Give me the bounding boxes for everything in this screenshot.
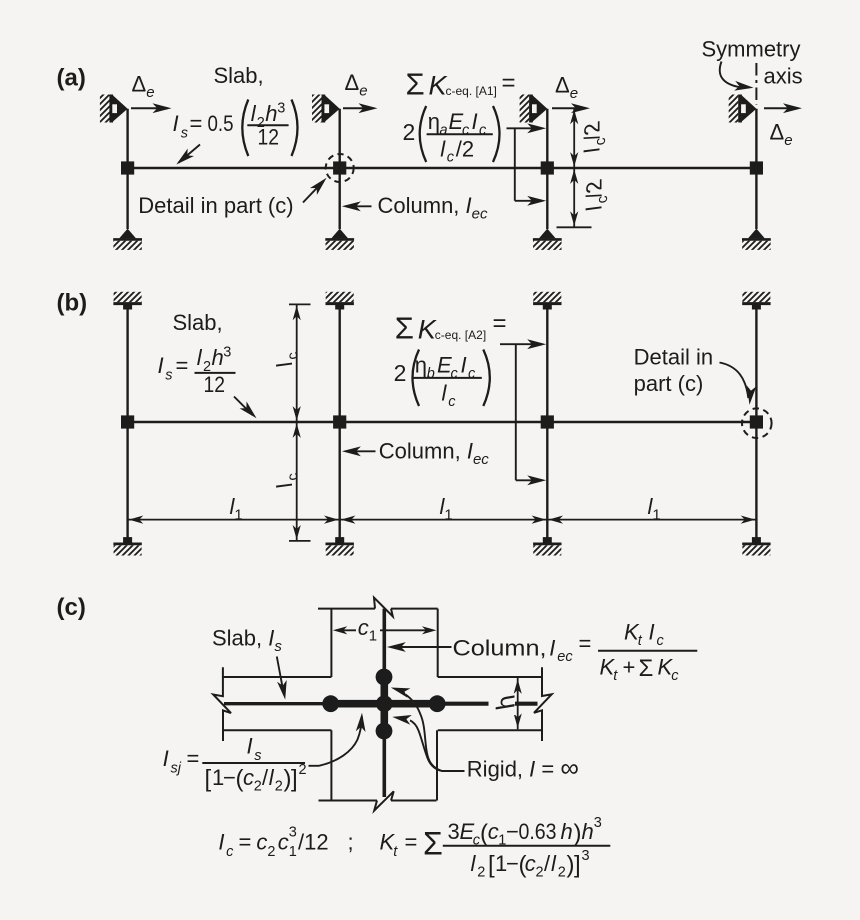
svg-text:[: [ — [488, 852, 495, 879]
svg-text:Detail in: Detail in — [634, 345, 713, 370]
svg-text:]: ] — [574, 852, 581, 879]
formula Isj = Is / [1-(c2/l2)]^2 — [163, 734, 307, 795]
rigid column segment through joint (c) — [380, 677, 388, 731]
cut line with break at slab right end (c) — [534, 667, 552, 741]
lateral load arrow at top of column A2 — [343, 103, 378, 113]
dimension line lc/2 + lc/2 beside column A3 — [557, 108, 592, 227]
pin support at bottom of column A2 — [325, 229, 354, 250]
column B3 of frame (b) — [546, 309, 548, 538]
column outline top-left edge (c) — [330, 609, 332, 677]
slab outline left arm bottom edge (c) — [223, 729, 332, 731]
column A1 of frame (a) — [126, 109, 128, 229]
fixed support at bottom of column B4 — [742, 537, 770, 555]
svg-text:=: = — [239, 830, 252, 855]
svg-text:3: 3 — [594, 815, 602, 831]
joint node square B1 — [121, 415, 134, 428]
pin support at bottom of column A4 — [742, 229, 771, 250]
leader curve from Rigid label to lower rigid segment — [392, 712, 442, 771]
hinge dot left (c) — [322, 695, 339, 712]
svg-text:I: I — [247, 734, 253, 759]
svg-text:I: I — [472, 109, 478, 134]
equivalent column stiffness formula 2(eta-b Ec Ic / lc) — [394, 350, 490, 411]
lateral load arrow at top of column A3 — [552, 103, 590, 113]
svg-text:Σ: Σ — [423, 826, 443, 862]
fixed support at top of column B2 — [326, 292, 354, 310]
svg-text:sj: sj — [171, 761, 182, 777]
svg-text:Column,: Column, — [453, 636, 547, 661]
arrow from Column label to column A2 — [342, 201, 372, 211]
svg-text:Slab,: Slab, — [214, 63, 264, 88]
curved leader arrow to detail circle at node B4 — [720, 363, 757, 406]
joint node square B2 — [333, 415, 346, 428]
svg-text:[: [ — [205, 766, 212, 793]
svg-text:part (c): part (c) — [634, 371, 704, 396]
svg-text:Rigid, I = ∞: Rigid, I = ∞ — [467, 753, 579, 783]
svg-text:h: h — [212, 345, 224, 370]
svg-text:ec: ec — [557, 649, 573, 665]
lateral load arrow at top of column A4 — [764, 103, 802, 113]
svg-text:=: = — [187, 746, 200, 771]
slab beam of frame (b) — [128, 421, 757, 423]
svg-text:=: = — [405, 830, 418, 855]
pin support at bottom of column A3 — [533, 229, 562, 250]
svg-text:3: 3 — [582, 848, 590, 864]
svg-text:(a): (a) — [57, 65, 86, 92]
svg-text:−: − — [506, 851, 519, 876]
svg-text:I: I — [173, 111, 179, 136]
svg-text:c: c — [226, 844, 234, 860]
svg-text:Σ: Σ — [639, 655, 654, 682]
curved leader arrow from Symmetry label to axis — [720, 62, 754, 93]
svg-text:(: ( — [480, 820, 488, 847]
svg-text:+: + — [623, 655, 636, 680]
svg-text:0.63: 0.63 — [519, 819, 557, 844]
svg-text:Detail in part (c): Detail in part (c) — [138, 193, 293, 218]
svg-text:/: / — [544, 851, 551, 876]
svg-text:−: − — [506, 819, 519, 844]
svg-text:I: I — [158, 353, 164, 378]
svg-text:Σ: Σ — [395, 311, 414, 346]
svg-text:I: I — [461, 353, 467, 378]
hinge dot right (c) — [429, 695, 446, 712]
svg-text:b: b — [427, 366, 435, 382]
equation sum K c-eq [A1] = — [406, 67, 516, 102]
pin support at bottom of column A1 — [113, 229, 142, 250]
svg-text:h: h — [561, 819, 573, 844]
svg-text:3: 3 — [223, 345, 231, 361]
joint node square A1 — [121, 161, 134, 174]
joint node square A2 — [333, 161, 346, 174]
leader bracket with arrows from formula to column A3 — [507, 123, 547, 205]
leader arrow from Isj formula to rigid slab segment — [309, 712, 367, 765]
formula Ic = c2 c1^3/12 ; Kt = sum(...) — [218, 815, 610, 881]
svg-text:c: c — [488, 819, 499, 844]
hinge dot top (c) — [376, 669, 393, 686]
dimension line h (slab depth) — [514, 678, 522, 729]
fixed support at top of column B4 — [742, 292, 770, 310]
svg-text:Slab,: Slab, — [173, 310, 223, 335]
leader arrow from Slab label to slab centreline (c) — [277, 657, 290, 701]
svg-text:=: = — [493, 310, 507, 337]
svg-text:Symmetry: Symmetry — [702, 37, 801, 62]
lateral load arrow at top of column A1 — [131, 103, 172, 113]
svg-text:s: s — [181, 125, 188, 141]
fixed support at bottom of column B1 — [113, 537, 141, 555]
svg-text:c: c — [671, 668, 679, 684]
joint node square B3 — [541, 415, 554, 428]
white backing for h label — [489, 694, 516, 716]
svg-text:/2: /2 — [456, 137, 474, 162]
svg-text:c: c — [479, 123, 487, 139]
svg-text:c: c — [256, 830, 267, 855]
dashed detail circle around node A2 — [326, 154, 354, 182]
break symbol at column top cut (c) — [374, 598, 393, 617]
fixed support at top of column B3 — [533, 292, 561, 310]
slab outline right arm bottom edge (c) — [438, 729, 542, 731]
column A2 of frame (a) — [339, 109, 341, 229]
column B1 of frame (b) — [126, 309, 128, 538]
text label Detail in part (c) (b) — [634, 345, 713, 397]
leader bracket with arrows from formula to column B3 — [500, 339, 546, 485]
column outline bottom-left edge (c) — [330, 730, 332, 800]
joint node square A4 — [750, 161, 763, 174]
svg-text:c: c — [657, 633, 665, 649]
svg-text:(b): (b) — [57, 290, 88, 317]
column centreline above joint (c) — [382, 609, 386, 678]
svg-text:;: ; — [348, 830, 354, 855]
column B2 of frame (b) — [339, 309, 341, 538]
equation sum K c-eq [A2] = — [395, 310, 507, 346]
svg-text:3: 3 — [277, 101, 285, 117]
svg-text:s: s — [254, 748, 261, 764]
symmetry axis dash-dot line — [755, 63, 757, 105]
svg-text:c: c — [451, 366, 459, 382]
svg-text:c-eq. [A2]: c-eq. [A2] — [435, 328, 486, 342]
svg-text:2: 2 — [536, 865, 544, 881]
svg-text:I: I — [549, 636, 555, 661]
cut line with break at slab left end (c) — [213, 667, 231, 741]
guided roller support at top of column A3 — [520, 95, 548, 123]
svg-text:(c): (c) — [57, 594, 86, 621]
equivalent column stiffness formula 2(eta-a Ec Ic / (lc/2)) — [403, 106, 500, 166]
svg-text:=: = — [176, 353, 189, 378]
leader arrow to detail circle at node A2 — [303, 174, 330, 202]
svg-text:η: η — [415, 353, 427, 378]
svg-text:c: c — [447, 150, 455, 166]
svg-text:12: 12 — [204, 372, 226, 397]
svg-text:c: c — [525, 851, 536, 876]
svg-text:=: = — [502, 70, 516, 97]
svg-text:c: c — [278, 830, 289, 855]
svg-text:0.5: 0.5 — [208, 111, 234, 136]
column outline top-right edge (c) — [437, 609, 439, 677]
column centreline below joint (c) — [382, 731, 386, 798]
column cut top edge (c) — [318, 608, 375, 610]
svg-text:I: I — [218, 830, 224, 855]
svg-text:c-eq. [A1]: c-eq. [A1] — [446, 84, 497, 98]
slab outline right arm top edge (c) — [438, 676, 542, 678]
hinge dot bottom (c) — [376, 723, 393, 740]
guided roller support at top of column A1 — [100, 95, 128, 123]
svg-text:2: 2 — [403, 119, 416, 145]
svg-text:/12: /12 — [298, 830, 329, 855]
fixed support at bottom of column B2 — [326, 537, 354, 555]
slab stiffness formula Is = l2 h^3/12 (b) — [158, 345, 236, 398]
svg-text:2: 2 — [267, 844, 275, 860]
svg-text:2: 2 — [477, 865, 485, 881]
column B4 of frame (b) — [755, 309, 757, 538]
svg-text:c: c — [243, 765, 254, 790]
formula Column, Iec = Kt Ic / (Kt + sum Kc) — [453, 620, 698, 685]
svg-text:axis: axis — [764, 64, 803, 89]
slab beam of frame (a) — [128, 167, 757, 169]
leader curve from Rigid label to upper rigid segment — [389, 683, 464, 771]
arrow from Column label to column centreline (c) — [387, 642, 452, 652]
slab outline left arm top edge (c) — [223, 676, 332, 678]
leader arrow from slab formula to slab beam (a) — [173, 145, 200, 169]
svg-text:I: I — [163, 746, 169, 771]
svg-text:1: 1 — [289, 844, 297, 860]
svg-text:η: η — [428, 109, 440, 134]
joint node square A3 — [541, 161, 554, 174]
svg-text:h: h — [582, 819, 594, 844]
svg-text:I: I — [649, 620, 655, 645]
hinge dot centre (c) — [376, 695, 393, 712]
dimension line lc (storey heights) left of column B2 — [289, 304, 311, 541]
svg-text:2: 2 — [558, 865, 566, 881]
dimension arrows c1 — [333, 626, 437, 634]
slab centreline right of joint (c) — [437, 702, 537, 706]
svg-text:=: = — [579, 631, 592, 656]
svg-text:c: c — [468, 366, 476, 382]
leader arrow from slab formula (b) to slab beam — [234, 397, 260, 422]
rigid slab segment through joint (c) — [331, 700, 438, 708]
svg-text:]: ] — [291, 766, 298, 793]
dashed detail circle around node B4 — [742, 408, 772, 438]
column outline bottom-right edge (c) — [436, 730, 438, 800]
svg-text:2: 2 — [275, 779, 283, 795]
svg-text:): ) — [574, 820, 582, 847]
arrow from Column label to column B2 — [342, 446, 376, 456]
svg-text:=: = — [190, 111, 203, 136]
svg-text:Σ: Σ — [406, 67, 425, 102]
fixed support at bottom of column B3 — [533, 537, 561, 555]
guided roller support at top of column A4 — [729, 95, 757, 123]
svg-text:2: 2 — [299, 762, 307, 778]
slab centreline left of joint (c) — [224, 702, 331, 705]
svg-text:s: s — [165, 367, 172, 383]
text label Symmetry axis — [702, 37, 803, 89]
svg-text:3: 3 — [289, 825, 297, 841]
dimension line l1 spans (b) — [128, 516, 757, 524]
column A4 of frame (a) — [755, 109, 757, 229]
slab stiffness formula Is = 0.5(l2 h^3/12) — [173, 100, 298, 157]
joint node square B4 — [750, 415, 763, 428]
column cut bottom edge (c) — [319, 800, 378, 802]
fixed support at top of column B1 — [113, 292, 141, 310]
column A3 of frame (a) — [546, 109, 548, 229]
svg-text:c: c — [448, 394, 456, 410]
guided roller support at top of column A2 — [312, 95, 340, 123]
svg-text:3: 3 — [448, 819, 460, 844]
svg-text:12: 12 — [258, 125, 280, 150]
svg-text:2: 2 — [254, 779, 262, 795]
break symbol at column bottom cut (c) — [374, 791, 394, 810]
svg-text:2: 2 — [394, 360, 407, 386]
svg-text:h: h — [265, 101, 277, 126]
svg-text:−: − — [223, 765, 236, 790]
